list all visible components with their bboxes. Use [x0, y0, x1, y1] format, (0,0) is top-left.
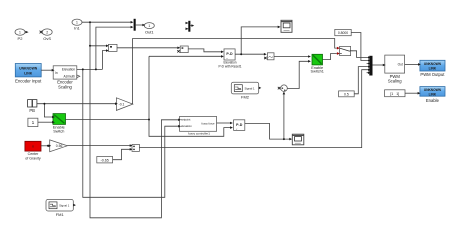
svg-text:-0.1: -0.1: [119, 102, 125, 106]
svg-text:OvS: OvS: [43, 36, 51, 41]
svg-text:fuzzy controller1: fuzzy controller1: [188, 131, 210, 135]
svg-text:Out1: Out1: [145, 29, 154, 34]
svg-text:Signal 1: Signal 1: [244, 86, 255, 90]
svg-text:0.5: 0.5: [344, 92, 349, 96]
svg-text:2: 2: [46, 31, 48, 35]
svg-text:Scaling: Scaling: [58, 84, 72, 89]
svg-text:Encoder Input: Encoder Input: [15, 79, 42, 84]
svg-text:PWM Output: PWM Output: [420, 72, 445, 77]
svg-text:of Gravity: of Gravity: [25, 157, 41, 161]
svg-text:Out: Out: [398, 63, 403, 67]
svg-text:LINK: LINK: [24, 71, 32, 75]
svg-text:Switch1: Switch1: [311, 70, 324, 74]
svg-text:⌄: ⌄: [226, 56, 229, 60]
svg-text:⌄: ⌄: [235, 126, 238, 130]
svg-text:FM2: FM2: [241, 95, 250, 100]
svg-text:In1: In1: [74, 26, 80, 31]
svg-text:elevation: elevation: [181, 124, 192, 128]
svg-text:UNKNOWN: UNKNOWN: [19, 66, 38, 70]
svg-text:1: 1: [19, 31, 21, 35]
svg-text:setpoint: setpoint: [181, 118, 191, 122]
svg-text:FM1: FM1: [56, 212, 65, 217]
svg-text:1: 1: [76, 21, 78, 25]
svg-text:Elevation: Elevation: [62, 68, 75, 72]
svg-text:0.8000: 0.8000: [338, 31, 348, 35]
svg-text:PB: PB: [29, 108, 35, 113]
svg-text:P-D with Reset1: P-D with Reset1: [218, 64, 241, 68]
svg-text:-0.65: -0.65: [101, 158, 109, 162]
svg-text:Azimuth: Azimuth: [63, 74, 75, 78]
svg-text:Switch: Switch: [53, 130, 64, 134]
svg-text:1: 1: [148, 24, 150, 28]
svg-text:x: x: [32, 145, 34, 149]
svg-text:In: In: [55, 71, 58, 75]
svg-text:P2: P2: [18, 36, 24, 41]
svg-text:Scaling: Scaling: [388, 78, 402, 83]
svg-text:Signal 1: Signal 1: [59, 204, 70, 208]
svg-text:[1 1]: [1 1]: [390, 92, 399, 96]
svg-text:Enable: Enable: [426, 98, 440, 103]
svg-text:Center: Center: [28, 152, 40, 156]
svg-text:0.56: 0.56: [56, 144, 63, 148]
svg-text:LINK: LINK: [429, 67, 437, 71]
svg-text:fuzzy force: fuzzy force: [202, 121, 215, 125]
svg-text:1: 1: [32, 120, 35, 126]
svg-text:LINK: LINK: [429, 92, 437, 96]
